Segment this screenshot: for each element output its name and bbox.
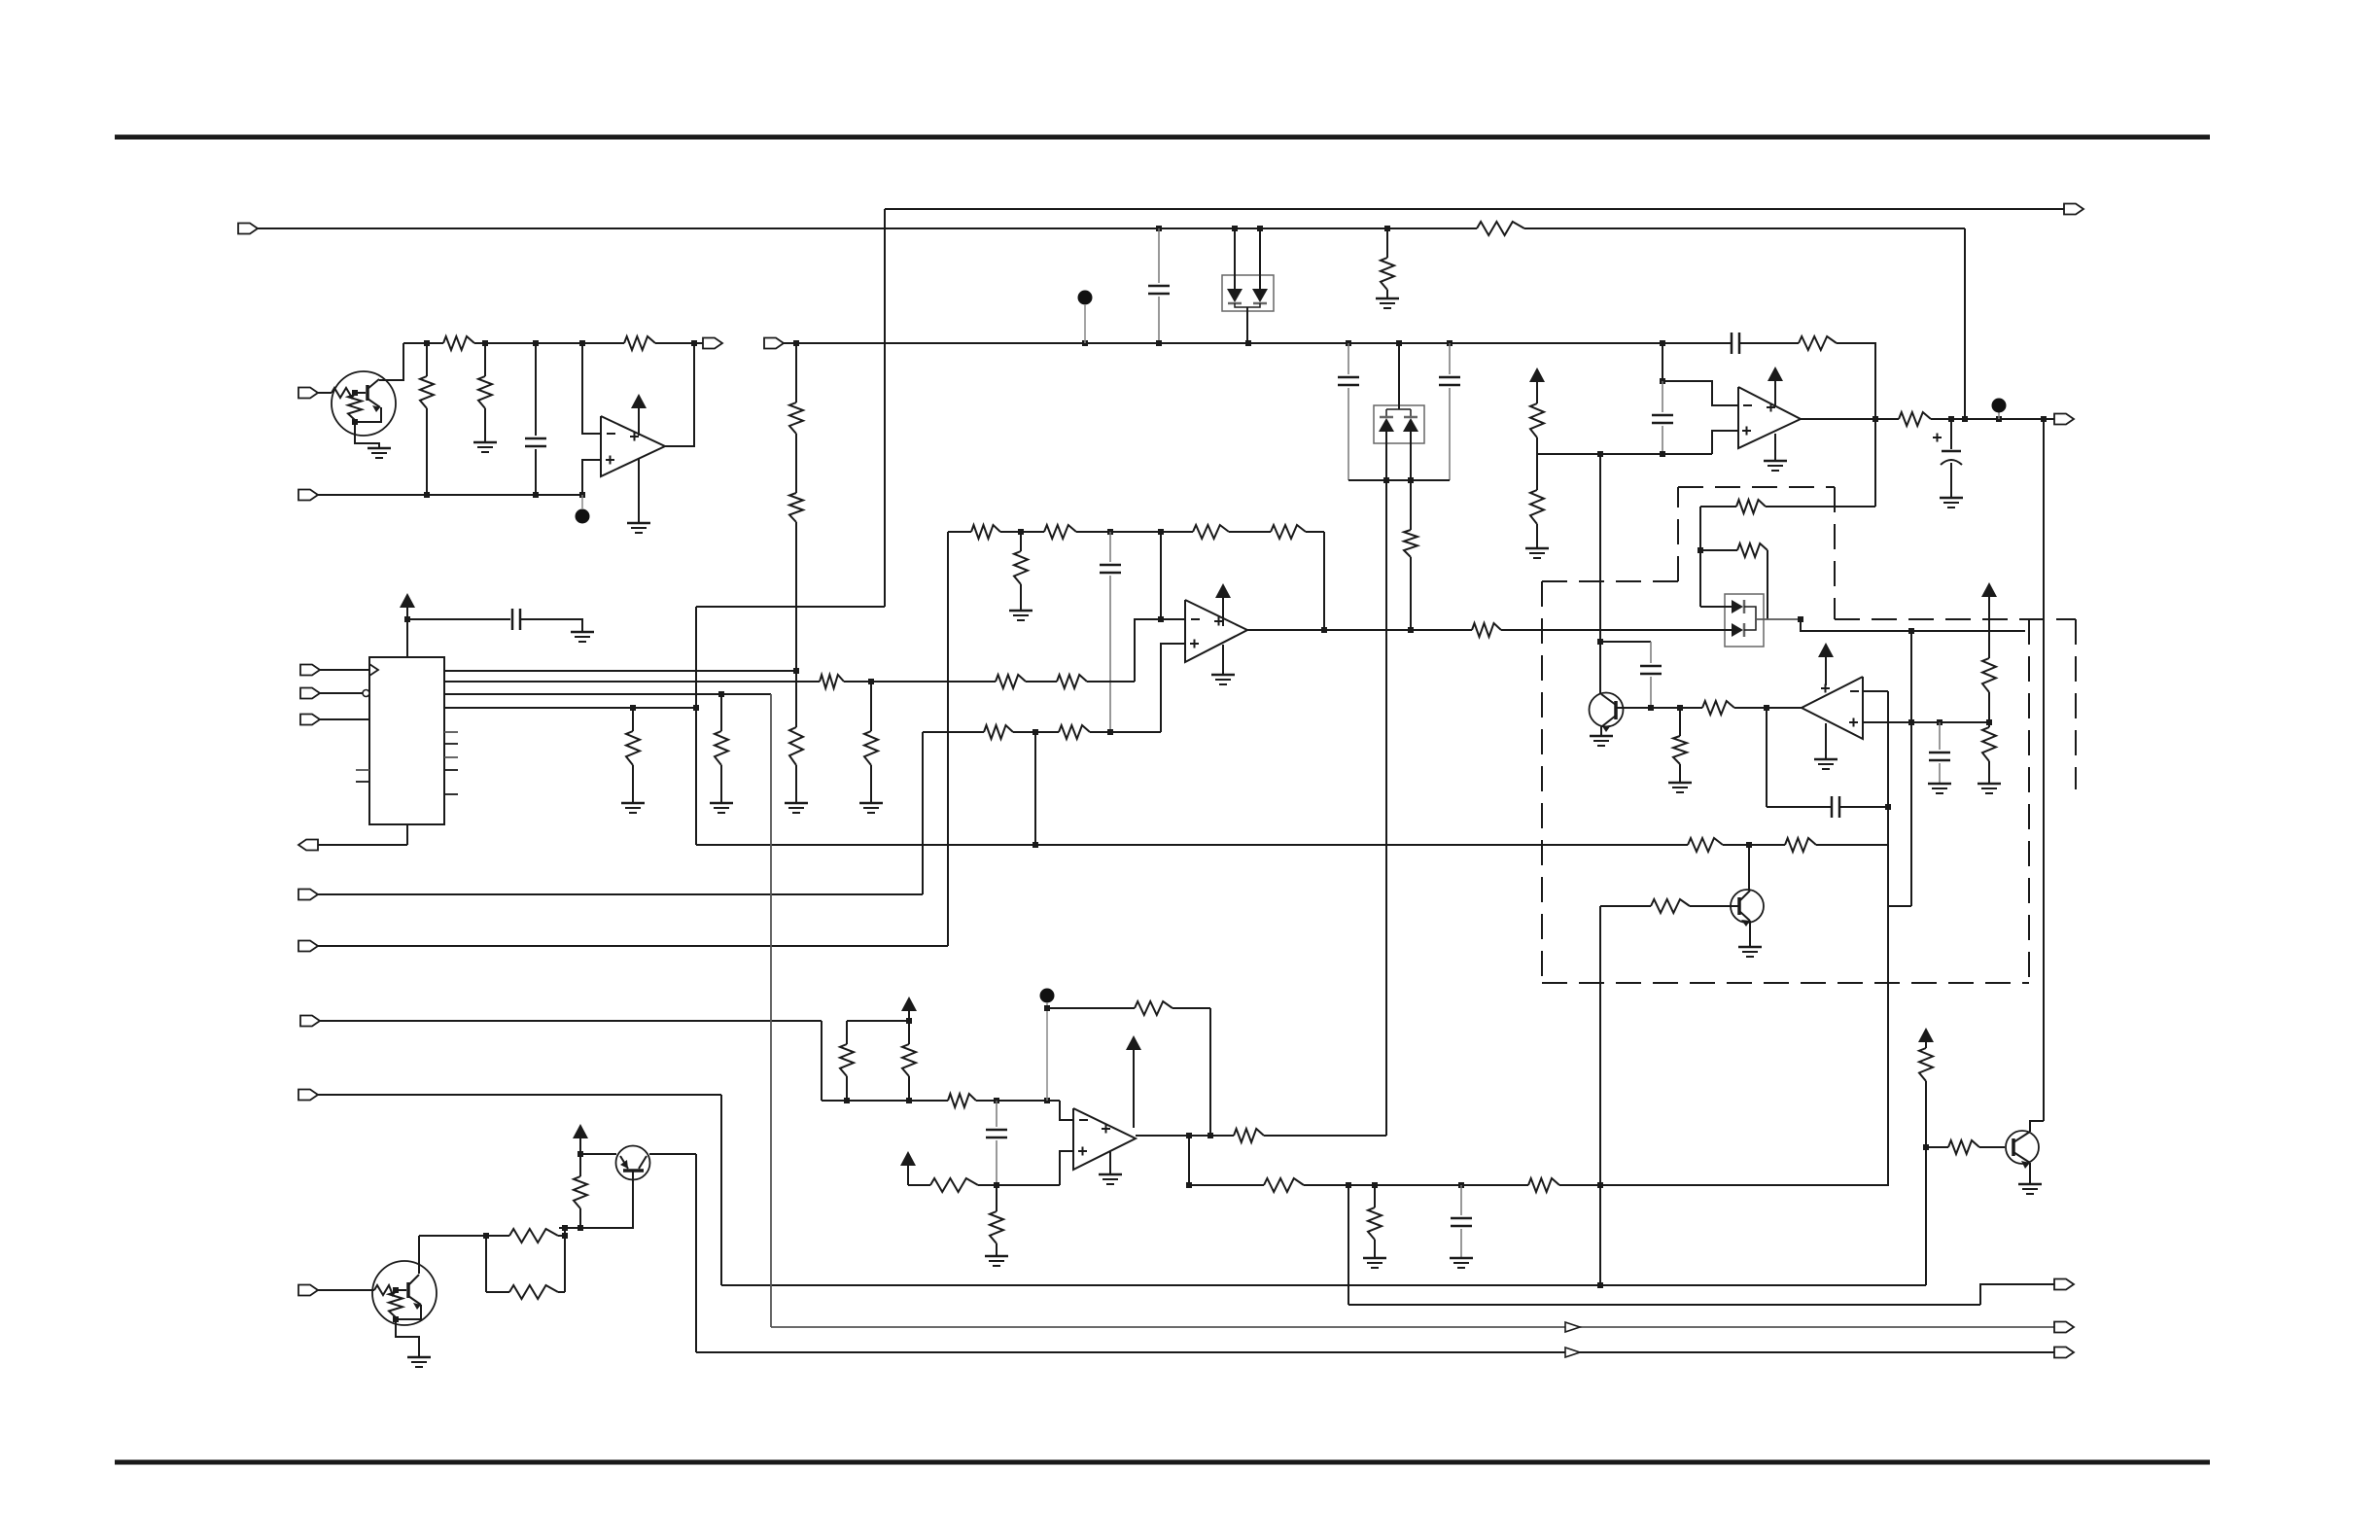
op-amp U1 [601,416,665,476]
junction 1219/x1646 [1597,1182,1603,1188]
U6 right stub c [444,756,458,758]
wire cathode out y=637 [1756,618,1801,620]
input pin P9 (y=973) [298,941,318,952]
resistor R41 (U4 feedback) [1135,1001,1172,1015]
junction x1942/comp [1885,804,1891,810]
resistor R33 (x1728 to gnd) [1673,708,1687,782]
wire U1 minus input [582,343,600,434]
junction L869/Q5 collector [1746,842,1752,848]
wire pin jog [1980,1284,2054,1305]
resistor R50 (emitter-base) [574,1154,587,1228]
wire U5 minus [1863,690,1888,692]
capacitor C4 [1439,343,1460,480]
capacitor C1 (551 col) [525,343,546,495]
wire x=975 up [947,532,949,946]
U6 left stub a [356,769,369,771]
Q6 emitter lead [2013,1152,2030,1169]
wire minus step [1662,381,1738,405]
junction L3/C4 [1447,340,1452,346]
resistor R40 [948,1094,976,1107]
junction 753/L869 tie [1032,729,1038,735]
U2 ground stem [1222,645,1224,674]
node Q8 emitter [393,1316,399,1322]
ground (R55) [710,803,733,813]
wire row y=1342 [1348,1304,1980,1306]
resistor R49 (Q6 base) [1948,1140,1979,1154]
wire x=742 down [720,1095,722,1285]
input pin P11 (y=1126) [298,1090,318,1101]
decoupling capacitor C14 [512,609,520,630]
resistor R23 [1044,525,1076,539]
wire emitter rail [580,1153,616,1155]
capacitor C6 (x1710) [1652,381,1673,454]
input pin P1 (Q1 base) [298,388,318,399]
wire row y=1050 [320,1020,822,1022]
junction feed/x1646 [1597,451,1603,457]
junction 1219/x1387 [1346,1182,1351,1188]
wire row y=1391 [696,1351,2054,1353]
polarized capacitor C7 [1933,419,1962,497]
capacitor C2 (L2-L3) [1148,228,1170,343]
input pin P18 [300,715,320,725]
junction 1132/fb [1044,1098,1050,1103]
Q5 base bar [1737,897,1741,915]
junction 494/D2a [1383,477,1389,483]
junction y649/x1966 [1908,628,1914,634]
output pin P13 [2054,1279,2074,1290]
diode D3b (right) [1732,623,1744,637]
junction 494/D2b [1408,477,1414,483]
junction out/x2102 [2041,416,2047,422]
U5 ground stem [1825,723,1827,758]
junction row2/C1 [533,492,539,498]
wire U4 plus step [1060,1151,1073,1185]
transistor Q1 circle [332,371,396,436]
resistor R29 [1057,675,1087,688]
ground (Q1 emitter) [367,448,391,458]
junction 701/R27 [868,679,874,684]
resistor R48 [1919,1042,1933,1285]
wire L1 jog y=624 [696,606,885,608]
junction x1749/y566 [1697,547,1703,553]
wire Q5 collector [1748,845,1750,890]
dashed box edge h [1541,581,1543,983]
ground (R56) [621,803,645,813]
diode D1b [1252,289,1268,303]
junction L3/node dot [1082,340,1088,346]
D1 anode wires [1235,228,1260,289]
junction L3/x819 [793,340,799,346]
series capacitor C5 (L3) [1732,332,1739,354]
dashed box edge e [1835,618,2076,620]
wire minus tap down [1160,532,1162,619]
Q5 emitter lead [1739,911,1750,927]
D1 cathode join [1235,303,1260,343]
U6 clock marker [369,664,378,676]
wire Q8 collector to pair [419,1236,486,1274]
wire U1 output [665,343,694,446]
junction row2/R5 [424,492,430,498]
junction plus/C11 [1937,719,1942,725]
top border rule [115,135,2210,140]
U3 VCC arrow [1767,367,1783,406]
ground (R22) [1009,611,1032,620]
junction fb/out row [1207,1133,1213,1138]
junction L3/D2 [1396,340,1402,346]
resistor R35 (VCC side) [1982,597,1996,722]
resistor R15 (x1451) [1404,480,1417,630]
U4 ground stem [1109,1151,1111,1173]
resistor R38 [840,1021,854,1101]
op-amp U4 [1073,1108,1136,1170]
vertical x=2102 (to Q6) [2043,419,2045,1121]
resistor R18 (output series) [1899,412,1931,426]
pair left rail [485,1236,487,1292]
junction out/node dot [1996,416,2002,422]
resistor R6 (499 col to gnd) [478,343,492,441]
junction 1132/C12 [994,1098,999,1103]
junction L2/R10 [1384,226,1390,231]
U6 VCC arrow [400,593,415,619]
wire U4 output y=1168 [1136,1135,1386,1137]
Q7 base stem [559,1172,633,1228]
series capacitor C10 [1832,796,1839,818]
junction base row/pair [562,1225,568,1231]
wire x=1387 down [1347,1185,1349,1305]
resistor R16 (VCC to feed) [1530,382,1544,454]
junction pair left [483,1233,489,1239]
ground (R10) [1376,298,1399,308]
ground (Q8) [407,1357,431,1367]
junction L2/D1a [1232,226,1238,231]
ground (Q6) [2018,1184,2042,1194]
junction L2/D1b [1257,226,1263,231]
wire fb corner x=1362 [1323,532,1325,630]
wire to P19 [318,844,407,846]
wire Q1 collector up to row [379,343,403,380]
resistor R36 (gnd side) [1982,722,1996,783]
vertical x=1966 [1910,631,1912,906]
input pin P17 [300,688,320,699]
resistor R22 (to gnd) [1014,532,1028,610]
Q7 base bar (horiz) [623,1169,644,1172]
wire U4 minus step [1060,1101,1073,1120]
wire minus row y=547 [948,531,1324,533]
capacitor C13 [1451,1185,1472,1257]
resistor R21 [971,525,1000,539]
Q6 collector lead [2013,1132,2030,1142]
wire row y=1365 [771,1326,2054,1328]
resistor R31 [1059,725,1090,739]
node B dot [1078,291,1093,305]
wire L1 x=716 down [695,607,697,845]
junction L869/plusnet col [1032,842,1038,848]
wire L2 (y=235) [257,227,1965,229]
D3 cathode bus [1744,607,1756,630]
junction 547/minus tap [1158,529,1164,535]
wire in3 [320,718,369,720]
node A dot [576,509,590,524]
U6 right stub b [444,743,458,745]
junction C6/feed line [1660,451,1665,457]
output pin P14 [2054,1322,2074,1333]
dashed box edge a [1542,580,1678,582]
junction out3/R55 [718,691,724,697]
resistor R17 (feed to gnd) [1530,454,1544,547]
Q6 base bar [2012,1138,2015,1156]
resistor R11 (U3 feedback) [1799,336,1837,350]
wire x=949 up [922,732,924,894]
junction row1/inv input [579,340,585,346]
junction out/C7 [1948,416,1954,422]
U6 right stub a [444,731,458,733]
Q8 emitter lead [408,1296,421,1310]
dual diode D2 box [1374,405,1424,443]
wire top anode [1700,606,1732,608]
transistor Q6 circle [2006,1131,2039,1164]
diode D1a [1227,289,1242,303]
junction plus/R35 [1986,719,1992,725]
ground (R14) [785,803,808,813]
ground (C14) [571,632,594,642]
parallel resistor R51 [486,1229,565,1242]
resistor R27 (to gnd) [864,682,878,802]
wire base to bar [396,1289,406,1291]
resistor R28 [996,675,1026,688]
input pin P5 (L2) [238,224,258,234]
ground (C7) [1940,498,1963,507]
junction 1219/C13 [1458,1182,1464,1188]
wire L3 after C5 [1739,342,1799,344]
wire fb row y=1037 [1047,1007,1210,1009]
vertical x=1646 lower [1599,906,1601,1285]
Q4 base bar [1614,701,1618,719]
transistor Q5 circle [1731,890,1764,923]
IC U6 box [369,657,444,824]
ground (U2) [1211,675,1235,684]
input pin P8 (y=920) [298,890,318,900]
Q4 collector lead [1601,694,1616,705]
U1 VCC arrow [631,394,647,436]
wire U3 minus chain top [1662,343,1663,381]
U6 right stub e [444,793,458,795]
dashed box edge b [1677,487,1679,581]
ground (U4) [1099,1174,1122,1184]
diode D2b (up) [1403,417,1418,432]
op-amp U2 [1185,600,1247,662]
junction Q7 emitter rail [577,1151,583,1157]
resistor R34 (base series) [1702,701,1734,715]
node B stub [1084,305,1086,343]
resistor R7 (L869 series1) [1688,838,1723,852]
wire N1 to cap [1600,641,1651,643]
resistor chain x=819 (R12,R13) [789,343,803,671]
junction row1/C1 [533,340,539,346]
junction L3/C2 [1156,340,1162,346]
wire P1 to base resistor [318,392,332,394]
capacitor C3 [1338,343,1359,480]
wire L1 left vertical x=910 [884,209,886,607]
wire row y=1126 [318,1094,721,1096]
ground (R43) [985,1256,1008,1266]
resistor R56 (to gnd) [626,708,640,802]
capacitor C8 chain [1100,532,1121,732]
wire x=716 down (to pin row) [695,1154,697,1352]
wire L3 (y=353) [783,342,1732,344]
wire U6 out1 y=690 [444,670,796,672]
U6 right stub d [444,769,458,771]
resistor R43 (to gnd) [990,1185,1003,1255]
bottom border rule [115,1460,2210,1465]
junction fb tap [1044,1005,1050,1011]
Q1 collector lead [367,379,379,389]
resistor R54 (Q8 int) [389,1292,402,1317]
wire VCC stem [406,619,408,657]
resistor R47 [1528,1178,1559,1192]
Q4 emitter ground [1600,726,1602,735]
resistor R10 (L2 1427 to gnd) [1381,228,1394,297]
resistor R25 (fb2) [1271,525,1306,539]
resistor R39 [902,1021,916,1101]
wire L_869 [696,844,1889,846]
Q8 collector lead [408,1275,419,1285]
wire row y=1322 [721,1284,1926,1286]
junction fb/out [1321,627,1327,633]
junction x716/IC wire4 [693,705,699,711]
ground (R27) [859,803,883,813]
wire node D stem [1046,1002,1048,1101]
wire plus lead [1161,644,1185,732]
wire cathode jog [1801,619,2025,631]
wire Q8 emitter gnd [396,1319,419,1356]
VCC arrow (x1581 divider) [1529,367,1545,382]
wire y=521 (fb to diode) [1766,419,1875,507]
wire C14 to gnd [520,619,582,631]
junction minus step [1660,378,1665,384]
dashed box edge i [1542,982,2029,984]
wire U3 output row y=431 [1801,418,2054,420]
junction 1219/R46 [1372,1182,1378,1188]
junction 1132/R38 [844,1098,850,1103]
junction rail/VCC [906,1018,912,1024]
Q5 collector lead [1739,891,1750,901]
wire minus from lower net [1135,619,1161,682]
resistor R14 (x819 to gnd) [789,671,803,802]
wire P12 to Q8 [318,1289,374,1291]
junction row2/plus [579,492,585,498]
Q1 emitter lead with arrow [367,399,380,412]
vertical x=1942 [1887,691,1889,1185]
ground (R6) [473,442,497,452]
Q7 collector lead [639,1156,647,1169]
ground (Q5) [1738,947,1762,957]
D2 common anode stem [1386,343,1411,417]
D2a wire to bus [1385,432,1387,480]
wire out3 corner x=793 [770,694,772,1327]
wire 521 corner to anode [1700,507,1736,607]
ground (C13) [1450,1258,1473,1268]
wire base node to bar [355,392,366,394]
ground (U5) [1814,759,1837,769]
diode D3a (right) [1732,600,1744,613]
wire y=566 [1700,549,1737,551]
junction 1322/x1646 [1597,1282,1603,1288]
wire plus feed line y=467 [1537,453,1712,455]
junction cathode/x1852 [1798,616,1803,622]
junction minus node [1158,616,1164,622]
wire L1 (y=215) to pin [885,208,2064,210]
wire row2 (y=509) [318,494,582,496]
node D dot [1040,989,1055,1003]
U1 ground stem [638,459,640,522]
wire base node to R49 [1926,1146,1948,1148]
U3 ground stem [1774,434,1776,460]
junction L3/C3 [1346,340,1351,346]
Q6 emitter stem [2029,1163,2031,1183]
wire U6 out3 y=714 [444,693,771,695]
resistor R2 (Q1 internal, base-emitter) [348,395,362,420]
resistor R19 (y=521) [1736,500,1766,513]
wire Q7 collector [649,1153,696,1155]
VCC rail (U4 input bias) [847,1020,909,1022]
N1 vertical x=1646 [1599,454,1601,642]
resistor R32 (output series) [1472,623,1501,637]
junction L2/C2 [1156,226,1162,231]
node Q1 base [352,390,358,396]
wire U5 plus row y=743 [1863,721,1989,723]
transistor Q7 circle [616,1146,650,1180]
wire emitter to ground [355,422,379,447]
input pin P6 (L3) [764,338,784,349]
junction C8/plus row [1107,729,1113,735]
transistor Q4 circle [1590,693,1624,727]
wire Q4 collector [1599,642,1601,693]
resistor R30 [984,725,1013,739]
U6 bottom stem [406,824,408,845]
dual diode D1 box [1222,275,1274,311]
capacitor C9 (Q4 base) [1640,642,1662,708]
wire R49 to base [1979,1146,2005,1148]
junction VCC/decouple [404,616,410,622]
resistor R45 [1264,1178,1304,1192]
wire clk [320,669,369,671]
diode D2a (up) [1379,417,1394,432]
U4 plus VCC arrow [900,1151,916,1185]
resistor R4 (U1 feedback) [624,336,655,350]
wire plus row y=1219 [908,1184,1060,1186]
junction row1/R5 [424,340,430,346]
U2 VCC arrow [1215,583,1231,626]
wire U1 plus input [582,460,600,495]
wire corner x=845 [821,1021,822,1101]
op-amp U3 [1738,387,1801,448]
input pin P12 (Q8) [298,1285,318,1296]
chevron marker row1365 [1565,1322,1580,1332]
junction base row/R50 [577,1225,583,1231]
wire U2 output y=648 [1247,629,1732,631]
U6 left stub b [356,781,369,783]
node C dot [1992,399,2007,413]
ground (R33) [1668,783,1692,792]
junction plus/x1966 [1908,719,1914,725]
node Q1 emitter [352,419,358,425]
junction 547/R22 [1018,529,1024,535]
wire Q1 emitter down [355,407,381,422]
ground (C11) [1928,784,1951,793]
wire in2 [320,692,363,694]
node Q8 base [393,1287,399,1293]
wire row y=1219 right [1189,1184,1889,1186]
